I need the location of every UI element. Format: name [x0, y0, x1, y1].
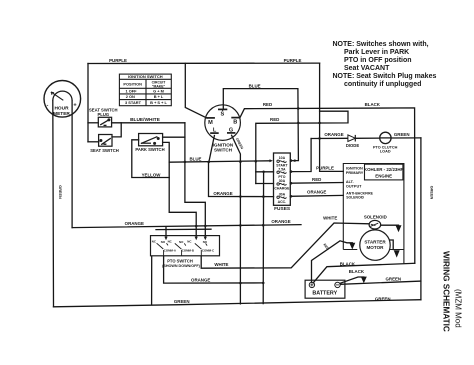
svg-text:YELLOW: YELLOW [142, 172, 162, 177]
svg-text:OUTPUT: OUTPUT [346, 184, 362, 188]
svg-text:RED: RED [270, 117, 279, 122]
svg-text:ORANGE: ORANGE [307, 189, 326, 194]
battery B1 [305, 280, 345, 298]
svg-text:G: G [229, 127, 233, 133]
svg-text:BLACK: BLACK [349, 269, 365, 274]
arrow into start fuse right [292, 159, 295, 162]
svg-text:PURPLE: PURPLE [284, 58, 302, 63]
svg-text:(MZM Mod: (MZM Mod [454, 289, 463, 328]
svg-text:(SHOWN DOWN/OFF): (SHOWN DOWN/OFF) [162, 264, 200, 268]
svg-text:WIRING SCHEMATIC: WIRING SCHEMATIC [442, 251, 451, 332]
svg-text:S: S [221, 112, 225, 118]
svg-text:COMM-A: COMM-A [164, 248, 177, 252]
svg-text:1 OFF: 1 OFF [125, 89, 137, 94]
wire white from pto switch comm-c to solenoid [201, 223, 369, 268]
engine box U1 [343, 164, 404, 264]
svg-text:WHITE: WHITE [323, 216, 337, 221]
ground arrow at battery negative [361, 277, 367, 284]
wire orange bus to acc fuse [209, 162, 274, 197]
svg-text:COMM-B: COMM-B [182, 248, 194, 252]
svg-text:B: B [233, 120, 237, 126]
svg-text:3 START: 3 START [125, 100, 142, 105]
wire starter right terminal [390, 240, 393, 250]
svg-text:COMM-C: COMM-C [202, 248, 215, 252]
svg-text:NO: NO [203, 240, 208, 244]
svg-text:30A: 30A [279, 193, 286, 197]
ground arrow at solenoid output [396, 225, 402, 232]
wire orange from hour meter to pto switch area [72, 225, 301, 237]
svg-text:PURPLE: PURPLE [316, 165, 334, 170]
ground arrow left of starter [349, 243, 355, 250]
solenoid K1 [364, 215, 387, 229]
wire orange short parallel segment [156, 228, 211, 230]
wire green from ignition G down [232, 135, 241, 304]
junction nodes [184, 107, 321, 284]
svg-text:7.5A: 7.5A [278, 167, 286, 171]
svg-text:PURPLE: PURPLE [109, 58, 127, 63]
svg-text:BLUE: BLUE [249, 83, 261, 88]
ground arrow right of starter [394, 250, 400, 257]
svg-text:Park Lever in PARK: Park Lever in PARK [344, 49, 409, 56]
wire orange diode row to pto clutch [311, 137, 421, 140]
wire black from battery positive to right bus [313, 263, 415, 283]
svg-text:RED: RED [312, 177, 321, 182]
note text block [333, 41, 437, 88]
svg-text:ALT.: ALT. [346, 180, 354, 184]
svg-text:-: - [46, 102, 48, 108]
wire purple top bus [88, 63, 343, 171]
svg-text:IGNITION: IGNITION [346, 167, 363, 171]
svg-text:NOTE: Seat Switch Plug makes: NOTE: Seat Switch Plug makes [333, 73, 437, 80]
wire pto switch left ground [151, 256, 153, 305]
svg-text:PTO in OFF position: PTO in OFF position [344, 57, 412, 64]
svg-text:ORANGE: ORANGE [125, 221, 144, 226]
svg-text:STARTER: STARTER [364, 240, 386, 245]
svg-text:B + L: B + L [154, 94, 164, 99]
svg-text:GREEN: GREEN [430, 186, 434, 200]
svg-text:WHITE: WHITE [214, 262, 228, 267]
fuse symbols [277, 160, 286, 198]
svg-text:GREEN: GREEN [58, 185, 62, 199]
svg-text:ACC.: ACC. [278, 200, 287, 204]
svg-text:FUSES: FUSES [274, 206, 291, 212]
svg-text:ORANGE: ORANGE [191, 278, 210, 283]
wire red from battery positive to starter [312, 241, 353, 282]
svg-text:PARK SWITCH: PARK SWITCH [135, 147, 164, 152]
wire hour meter right lead [71, 101, 73, 228]
wire blue/white from seat switches to park switch [112, 123, 206, 236]
ignition switch table [119, 74, 171, 106]
wire to pto fuse left [256, 171, 274, 173]
wire vertical right of fuses [262, 172, 264, 304]
svg-text:NOTE: Switches shown with,: NOTE: Switches shown with, [333, 41, 429, 48]
wire red/black top run from ignition B to right black bus [240, 108, 415, 263]
wire hour meter left lead [52, 101, 55, 307]
wire red second run [256, 111, 348, 183]
wire green bottom bus [54, 300, 421, 307]
wire green right bus [420, 138, 422, 300]
wire yellow from park switch [132, 140, 196, 236]
wire color labels [58, 58, 434, 304]
wire blue from ignition S [223, 89, 298, 161]
wire to charge fuse left [256, 183, 274, 185]
wire black battery negative to chassis ground [340, 277, 364, 283]
svg-text:ORANGE: ORANGE [271, 219, 290, 224]
hour meter M1 [44, 81, 81, 118]
pto switch S4 [151, 236, 220, 256]
svg-text:G + M: G + M [153, 89, 164, 94]
svg-text:LOAD: LOAD [380, 150, 391, 154]
arrows into pto switch [164, 237, 207, 241]
wire orange pto switch comm-a bottom [164, 256, 264, 283]
seat switch S1 [99, 135, 112, 147]
svg-text:MOTOR: MOTOR [366, 245, 384, 250]
svg-text:PRIMARY: PRIMARY [346, 171, 364, 175]
pto clutch load [373, 132, 398, 153]
svg-text:SOLENOID: SOLENOID [346, 195, 364, 199]
svg-text:SWITCH: SWITCH [214, 148, 233, 153]
svg-text:BLUE/WHITE: BLUE/WHITE [130, 117, 161, 123]
svg-text:ORANGE: ORANGE [324, 132, 343, 137]
fuse block F1-F4 [274, 153, 291, 205]
seat switch plug S2 [98, 117, 111, 127]
svg-text:SEAT SWITCH: SEAT SWITCH [90, 148, 119, 153]
wire solenoid output [381, 225, 399, 226]
ignition switch SW1 [205, 105, 241, 141]
svg-text:NO: NO [179, 240, 184, 244]
svg-text:BLUE: BLUE [190, 157, 202, 162]
svg-text:IGNITION SWITCH: IGNITION SWITCH [128, 74, 163, 79]
svg-text:DIODE: DIODE [346, 143, 359, 148]
svg-text:ORANGE: ORANGE [213, 191, 232, 196]
svg-text:POSITION: POSITION [123, 81, 142, 86]
svg-text:NO: NO [161, 240, 166, 244]
svg-text:PLUG: PLUG [97, 112, 109, 117]
svg-text:10A: 10A [279, 156, 286, 160]
wire pto fuse output to clutch [290, 139, 311, 172]
wire blue bus to start fuse [169, 136, 269, 163]
svg-text:Seat VACANT: Seat VACANT [344, 65, 390, 72]
svg-text:BATTERY: BATTERY [312, 291, 337, 297]
wire green from battery negative [341, 281, 421, 284]
svg-text:30A: 30A [279, 179, 286, 183]
starter motor M2 [360, 230, 390, 260]
park switch S3 [139, 134, 163, 146]
svg-text:B + S + L: B + S + L [150, 100, 167, 105]
svg-text:continuity if unplugged: continuity if unplugged [344, 81, 421, 88]
wire orange acc fuse to engine anti-backfire [290, 194, 343, 197]
svg-text:GREEN: GREEN [174, 299, 190, 304]
wire red charge fuse to engine alt output [290, 182, 343, 185]
svg-text:GREEN: GREEN [375, 296, 391, 301]
svg-text:BLACK: BLACK [340, 261, 356, 266]
svg-text:SOLENOID: SOLENOID [364, 215, 387, 220]
svg-text:PTO SWITCH: PTO SWITCH [167, 258, 193, 263]
svg-text:METER: METER [53, 111, 70, 117]
arrow into start fuse [270, 159, 273, 162]
svg-text:ENGINE: ENGINE [375, 173, 392, 178]
svg-text:GREEN: GREEN [385, 277, 401, 282]
svg-text:CHARGE: CHARGE [274, 187, 290, 191]
svg-text:2 ON: 2 ON [126, 94, 135, 99]
svg-text:BLACK: BLACK [365, 102, 381, 107]
svg-text:GREEN: GREEN [394, 132, 410, 137]
svg-text:L: L [213, 128, 217, 134]
svg-text:RED: RED [263, 102, 272, 107]
svg-text:M: M [208, 120, 213, 126]
diode D1 [346, 135, 359, 148]
svg-text:KOHLER - 22/23HP: KOHLER - 22/23HP [364, 167, 404, 172]
svg-text:HOUR: HOUR [54, 105, 69, 111]
